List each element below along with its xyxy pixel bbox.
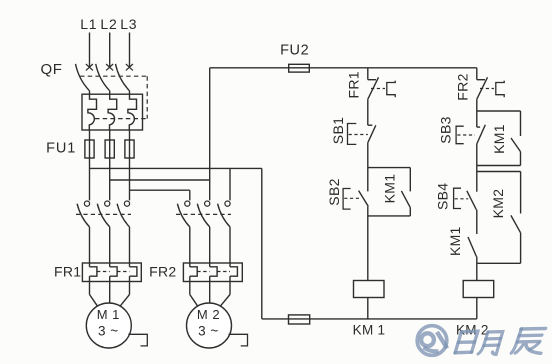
- svg-text:FU2: FU2: [280, 43, 309, 59]
- svg-text:FR2: FR2: [149, 264, 176, 280]
- svg-text:SB1: SB1: [330, 117, 346, 144]
- svg-text:SB2: SB2: [326, 178, 342, 205]
- svg-text:M 1: M 1: [97, 307, 120, 322]
- svg-text:FU1: FU1: [46, 140, 76, 156]
- svg-text:L3: L3: [120, 16, 137, 32]
- svg-text:QF: QF: [40, 61, 62, 78]
- svg-text:KM1: KM1: [491, 124, 507, 154]
- svg-text:M 2: M 2: [197, 307, 220, 322]
- svg-text:L2: L2: [100, 16, 117, 32]
- svg-text:FR1: FR1: [346, 71, 362, 98]
- svg-text:3 ~: 3 ~: [98, 323, 119, 338]
- svg-text:3 ~: 3 ~: [198, 323, 219, 338]
- svg-text:KM2: KM2: [490, 189, 506, 219]
- svg-text:L1: L1: [80, 16, 97, 32]
- svg-text:FR1: FR1: [54, 264, 81, 280]
- svg-text:KM 1: KM 1: [353, 322, 386, 337]
- svg-text:SB4: SB4: [434, 183, 450, 210]
- svg-text:FR2: FR2: [454, 73, 470, 100]
- svg-text:SB3: SB3: [437, 116, 453, 143]
- svg-text:KM1: KM1: [447, 226, 463, 256]
- svg-text:KM1: KM1: [381, 174, 397, 204]
